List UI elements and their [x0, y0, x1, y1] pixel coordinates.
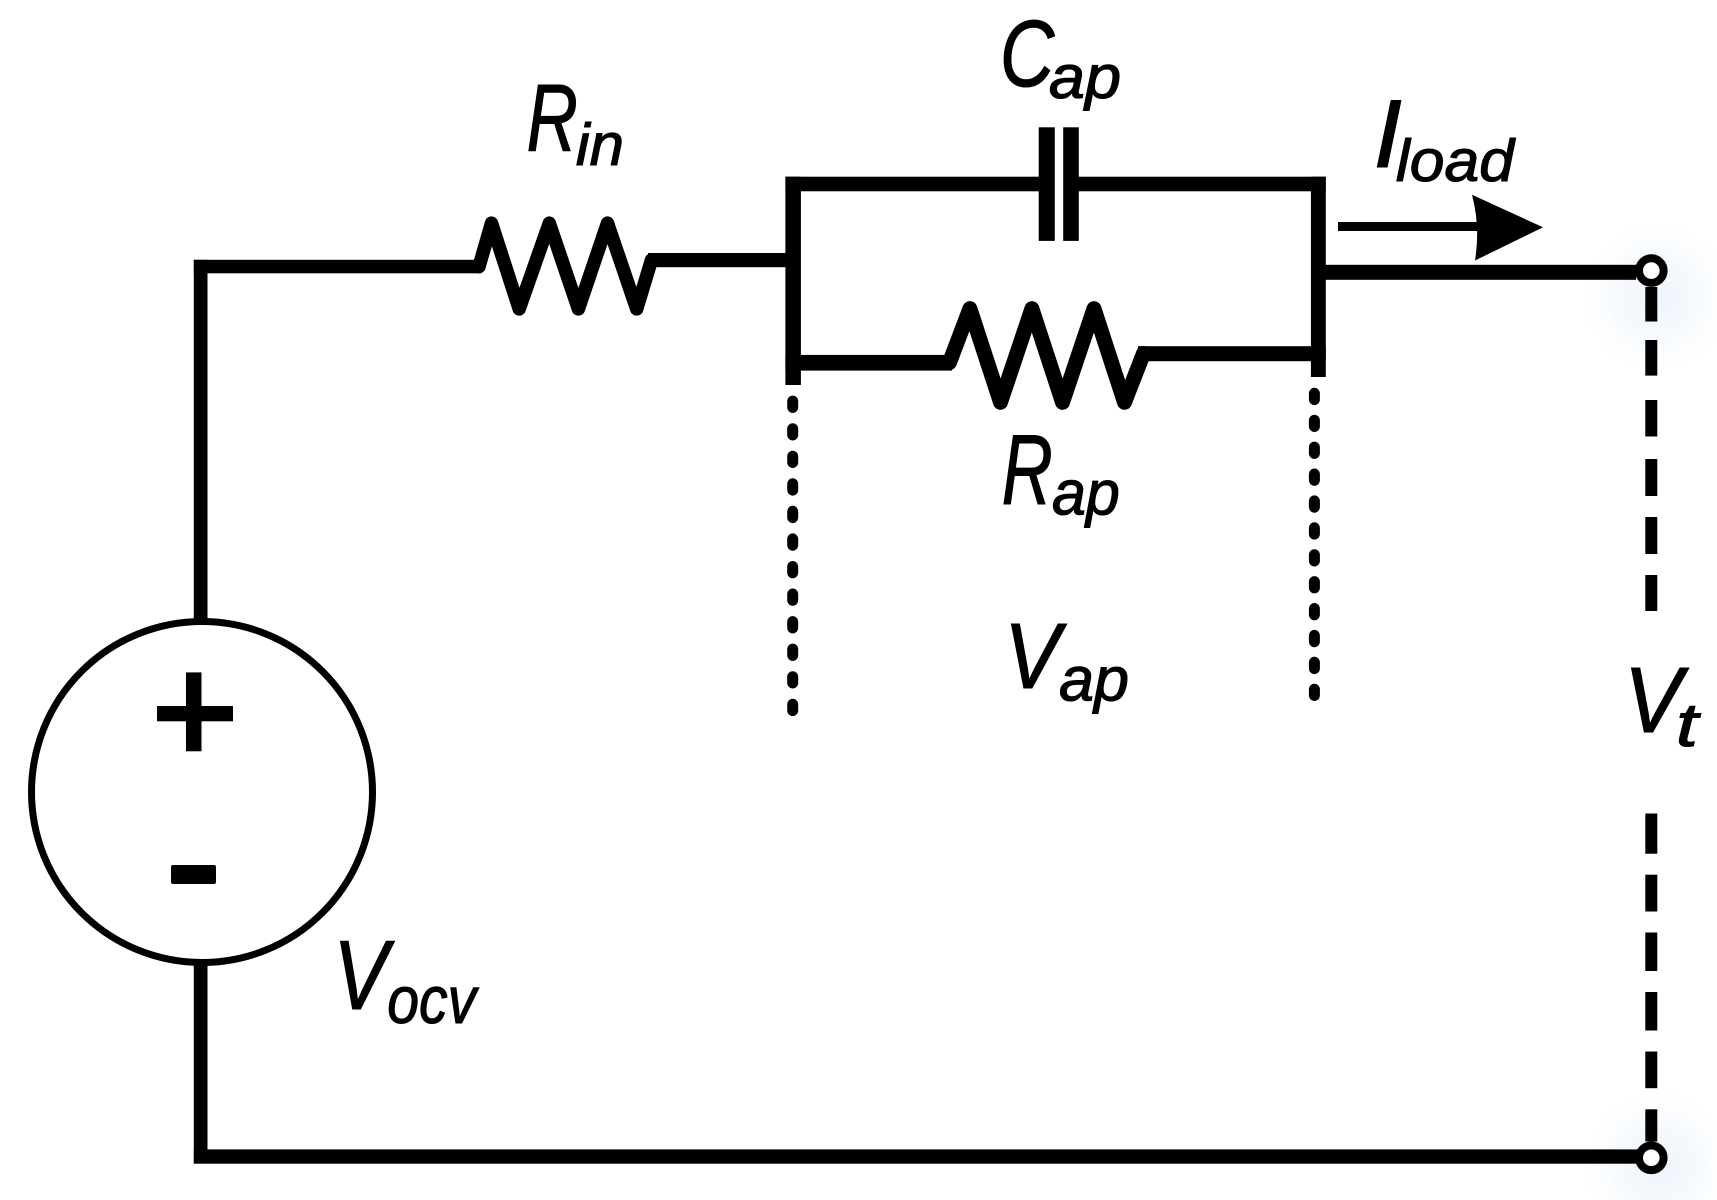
glow behind bottom terminal node [1583, 1089, 1717, 1200]
resistor R1 (R_in) zigzag [479, 223, 652, 309]
top terminal node (open circle) [1639, 258, 1664, 283]
svg-text:C: C [1000, 1, 1055, 107]
svg-text:ap: ap [1049, 44, 1121, 112]
node dotted line under RC right leg [1309, 388, 1320, 405]
node dotted line under RC left leg [787, 396, 798, 413]
label R_ap for resistor R2 [1002, 415, 1120, 528]
wire: top left horizontal (to R_in) [194, 260, 481, 274]
wire: RC block right leg [1311, 177, 1326, 377]
svg-text:load: load [1396, 128, 1516, 194]
label V_t terminal voltage [1624, 650, 1702, 760]
wire: RC block top rail, right of C_ap [1078, 177, 1326, 192]
svg-text:t: t [1676, 692, 1702, 760]
wire: RC block bottom rail, left of R_ap [785, 355, 952, 371]
label R_in for resistor R1 [527, 65, 624, 178]
svg-text:V: V [333, 921, 395, 1031]
svg-text:in: in [576, 111, 624, 177]
plus sign inside voltage source [157, 706, 233, 721]
wire: RC block top rail, left of C_ap [785, 177, 1040, 192]
wire: R_in to RC block [648, 253, 786, 267]
current arrow I_load head [1472, 195, 1543, 261]
wire: left vertical, bottom section [194, 962, 208, 1164]
label V_ocv for voltage source V1 [333, 921, 479, 1038]
svg-text:V: V [1004, 604, 1067, 708]
bottom terminal node (open circle) [1639, 1146, 1664, 1171]
label I_load for load current [1373, 81, 1516, 194]
wire: bottom return rail [194, 1149, 1637, 1163]
wire: RC block left leg [785, 177, 801, 385]
glow behind top terminal node [1581, 221, 1717, 373]
wire: RC block bottom rail, right of R_ap [1138, 346, 1326, 361]
label V_ap node voltage across RC pair [1004, 604, 1129, 715]
label C_ap for capacitor C1 [1000, 1, 1121, 112]
wire: output to top terminal [1325, 265, 1636, 280]
resistor R2 (R_ap) zigzag [950, 309, 1144, 403]
node V_t dashed line (upper and lower runs) [1645, 287, 1657, 322]
wire: left vertical, top section [194, 260, 208, 621]
svg-text:ap: ap [1052, 459, 1120, 529]
svg-text:R: R [527, 65, 578, 172]
capacitor C1 right plate [1063, 127, 1079, 241]
svg-text:ocv: ocv [387, 964, 480, 1038]
voltage source V1 circle [32, 622, 373, 963]
svg-text:R: R [1002, 415, 1053, 526]
svg-text:ap: ap [1059, 645, 1129, 715]
current arrow I_load shaft [1338, 222, 1481, 231]
capacitor C1 left plate [1039, 127, 1055, 241]
minus sign inside voltage source [171, 865, 216, 884]
